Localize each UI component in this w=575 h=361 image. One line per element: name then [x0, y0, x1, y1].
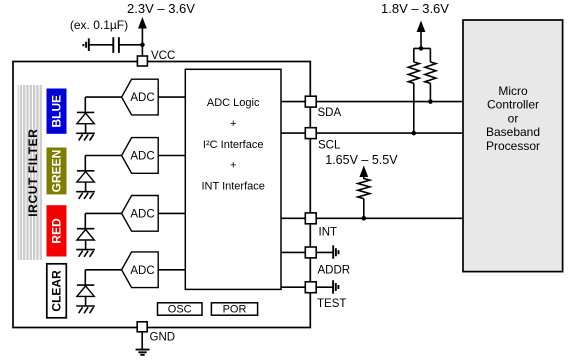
wire D2 to ADC2 [85, 155, 121, 157]
node R2-SDA junction [428, 99, 433, 104]
photodiode D1 (blue) [76, 97, 95, 140]
VCC arrow [138, 17, 147, 29]
logic block U1 [185, 69, 281, 289]
ground (ADDR, right-facing) [333, 245, 338, 258]
resistor R3 (INT pull-up) [358, 179, 370, 199]
wire D4 to ADC4 [85, 269, 121, 271]
capacitor C1 [113, 37, 119, 53]
svg-text:IRCUT FILTER: IRCUT FILTER [26, 128, 40, 216]
svg-text:SDA: SDA [318, 107, 342, 119]
svg-text:CLEAR: CLEAR [50, 270, 64, 312]
node R3-INT junction [362, 216, 367, 221]
svg-text:ADC: ADC [130, 209, 154, 221]
label BLUE [47, 89, 67, 134]
svg-text:I²C Interface: I²C Interface [203, 139, 264, 151]
photodiode D4 (clear) [76, 270, 95, 313]
wire SDA to MCU [316, 101, 463, 103]
svg-text:BLUE: BLUE [50, 95, 64, 128]
svg-text:1.65V – 5.5V: 1.65V – 5.5V [325, 153, 398, 167]
svg-text:ADC: ADC [130, 151, 154, 163]
pin ADDR [305, 247, 316, 258]
wire junction to capacitor [119, 44, 142, 46]
pin VCC [137, 56, 147, 66]
node VCC junction [140, 43, 145, 48]
svg-text:ADC: ADC [130, 265, 154, 277]
svg-text:Micro: Micro [498, 84, 528, 98]
IRCUT filter hatched bar [18, 85, 43, 260]
wire U1 to ADDR pin [281, 251, 305, 253]
svg-text:Processor: Processor [486, 139, 540, 153]
pin TEST [305, 282, 316, 293]
wire ADC3 output [158, 212, 185, 214]
wire D3 to ADC3 [85, 212, 121, 214]
ADC1 [122, 79, 159, 115]
svg-text:RED: RED [50, 218, 64, 244]
svg-text:ADC Logic: ADC Logic [207, 97, 260, 109]
wire INT to MCU [316, 217, 463, 219]
chip outline (sensor IC block) [13, 62, 310, 328]
svg-text:+: + [230, 118, 236, 130]
wire U1 to INT pin [281, 217, 305, 219]
svg-text:INT: INT [319, 227, 338, 239]
wire VCC vertical [141, 27, 143, 56]
node pull-up junction [419, 46, 424, 51]
ground (capacitor, left-facing) [83, 38, 88, 51]
label RED [47, 205, 67, 256]
svg-text:ADDR: ADDR [318, 265, 351, 277]
svg-text:POR: POR [223, 304, 247, 316]
ADC3 [122, 196, 159, 232]
svg-text:or: or [508, 111, 519, 125]
ground (TEST, right-facing) [333, 280, 338, 293]
wire R3 to INT [363, 199, 365, 219]
wire U1 to SDA pin [281, 101, 305, 103]
wire U1 to SCL pin [281, 132, 305, 134]
svg-text:SCL: SCL [318, 140, 341, 152]
pull-up arrow [417, 21, 426, 33]
wire TEST to ground [316, 286, 333, 288]
node R1-SCL junction [412, 131, 417, 136]
ground (GND pin) [136, 350, 150, 355]
svg-text:2.3V – 3.6V: 2.3V – 3.6V [127, 1, 195, 16]
power-on-reset POR [211, 303, 257, 316]
wire ADC1 output [158, 96, 185, 98]
wire ADC4 output [158, 269, 185, 271]
INT pull-up arrow [359, 166, 368, 178]
ADC2 [122, 138, 159, 174]
svg-text:GREEN: GREEN [50, 150, 64, 193]
svg-text:Baseband: Baseband [486, 125, 540, 139]
photodiode D3 (red) [76, 213, 95, 256]
svg-text:+: + [230, 159, 236, 171]
svg-text:VCC: VCC [151, 50, 175, 62]
photodiode D2 (green) [76, 156, 95, 199]
ADC4 [122, 252, 159, 288]
label CLEAR [47, 264, 67, 318]
svg-text:(ex. 0.1µF): (ex. 0.1µF) [70, 18, 128, 32]
svg-text:1.8V – 3.6V: 1.8V – 3.6V [381, 1, 449, 16]
resistor R2 (SDA pull-up) [425, 62, 436, 83]
svg-text:GND: GND [150, 332, 176, 344]
resistor R1 (SCL pull-up) [408, 62, 419, 83]
wire SCL to MCU [316, 132, 463, 134]
wire arrow to resistor [363, 176, 365, 180]
svg-text:INT Interface: INT Interface [202, 180, 265, 192]
wire D1 to ADC1 [85, 96, 121, 98]
label GREEN [47, 148, 67, 195]
wire GND down [141, 332, 143, 350]
pin INT [305, 213, 316, 224]
MCU block [463, 20, 563, 272]
svg-text:OSC: OSC [168, 304, 192, 316]
wire ADC2 output [158, 155, 185, 157]
wire ADDR to ground [316, 251, 333, 253]
wire arrow to junction [420, 31, 422, 49]
wire R1 to SCL [413, 83, 415, 133]
pin SCL [305, 128, 316, 139]
wire R2 to SDA [429, 83, 431, 101]
svg-text:Controller: Controller [487, 98, 539, 112]
svg-text:TEST: TEST [317, 298, 346, 310]
oscillator OSC [158, 303, 203, 316]
pin GND [137, 322, 147, 332]
wire junction branch [414, 48, 431, 62]
svg-text:ADC: ADC [130, 92, 154, 104]
wire capacitor to ground [89, 44, 113, 46]
pin SDA [305, 96, 316, 107]
wire U1 to TEST pin [281, 286, 305, 288]
